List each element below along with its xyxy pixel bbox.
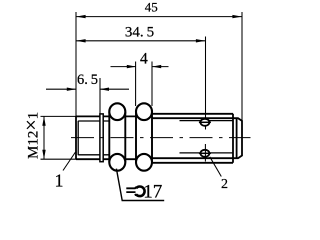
svg-text:17: 17 — [143, 181, 162, 202]
nut 2 side lines — [136, 112, 152, 163]
nut 1 side lines — [109, 112, 125, 163]
svg-text:45: 45 — [145, 0, 158, 15]
wrench jaw tips — [135, 187, 137, 195]
barrel face chamfer — [77, 121, 79, 155]
screw top slot — [199, 121, 211, 123]
screw bottom slot — [199, 152, 211, 154]
nut 1 bottom circle — [109, 154, 125, 171]
centerline — [71, 137, 251, 139]
thread minor lines — [78, 121, 109, 155]
nut 2 bottom circle — [136, 154, 152, 171]
nut 1 top circle — [109, 103, 125, 120]
svg-text:1: 1 — [55, 171, 64, 191]
extension line left face — [75, 12, 77, 116]
dimension 4 lines — [111, 66, 169, 68]
extension lines dim 4 — [136, 62, 152, 107]
screw bottom axis line — [204, 144, 206, 162]
svg-text:2: 2 — [221, 177, 228, 192]
dimension 45 arrows — [76, 15, 242, 18]
main body inner lines — [152, 118, 233, 158]
dimension 34.5 line — [76, 40, 206, 42]
connector step — [236, 118, 238, 158]
wrench symbol bars — [126, 188, 135, 192]
main body outer — [152, 114, 233, 163]
svg-text:M12×1: M12×1 — [21, 112, 43, 159]
nut 2 top circle — [136, 103, 152, 120]
screw bottom — [200, 150, 209, 157]
washer — [100, 114, 103, 162]
extension line right end — [241, 12, 243, 121]
extension line 6.5 — [99, 78, 101, 114]
leader wrench — [116, 169, 164, 201]
dimension 6.5 lines — [46, 88, 129, 90]
dimension 4 arrows — [127, 65, 161, 68]
rear section edge lines — [180, 121, 234, 153]
dimension M12x1 line — [43, 116, 45, 159]
dimension 45 line — [76, 16, 242, 18]
extension lines M12 — [41, 116, 77, 159]
svg-text:34. 5: 34. 5 — [125, 24, 154, 40]
dimension 34.5 arrows — [76, 39, 206, 42]
leader label 2 — [210, 157, 222, 177]
dimension M12x1 arrows — [42, 116, 45, 159]
screw top — [200, 119, 209, 126]
extension line 34.5 — [205, 37, 207, 130]
leader label 1 — [63, 152, 76, 171]
dimension 6.5 arrows — [67, 88, 109, 91]
connector — [233, 118, 242, 158]
wrench symbol ring — [136, 187, 144, 197]
sensor barrel (threaded body) — [76, 116, 151, 159]
svg-text:6. 5: 6. 5 — [77, 72, 98, 88]
svg-text:4: 4 — [140, 51, 148, 68]
